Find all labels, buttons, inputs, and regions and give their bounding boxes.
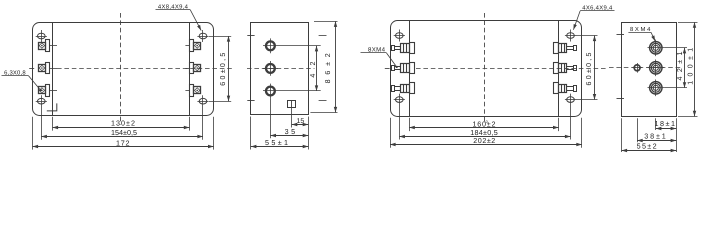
svg-text:38±1: 38±1: [644, 132, 666, 141]
view B slot tick right bottom: [319, 100, 327, 102]
dim A extension line flange-left: [32, 117, 34, 150]
filter A faston terminal left 1 (6,3x0,8): [39, 40, 58, 52]
filter A faston terminal left 2 (6,3x0,8): [39, 63, 58, 74]
svg-text:130±2: 130±2: [111, 119, 135, 128]
svg-text:172: 172: [116, 138, 130, 147]
dim B 86±2 extension top: [314, 21, 338, 23]
filter A faston terminal right 1: [185, 40, 200, 52]
view B terminal circle 1: [263, 38, 321, 53]
dim C 60±0.5 extension bottom: [576, 99, 598, 101]
filter C screw terminal right 3 (M4): [554, 83, 577, 94]
svg-text:18±1: 18±1: [654, 119, 675, 128]
filter A mounting slot hole 1 (8,4x9,4): [36, 30, 47, 42]
view D screw terminal circle 1: [648, 40, 688, 57]
view D screw terminal circle 3: [648, 80, 688, 97]
svg-text:55±2: 55±2: [637, 141, 657, 150]
filter A horizontal dashed centerline: [57, 68, 232, 70]
dim C 202±2 dimension line: [390, 144, 582, 146]
label C 8XM4 underline: [361, 52, 387, 54]
view B slot tick left top: [247, 35, 254, 37]
dim C 160±2 dimension line: [409, 127, 558, 129]
filter A faston terminal right 2: [185, 63, 200, 74]
filter A earth tab mark (L-shape near bottom left): [47, 103, 57, 111]
dim D 38±1 dimension line: [637, 140, 676, 142]
view B earth tab: [288, 101, 296, 108]
dim C extension line body-right: [558, 118, 560, 131]
dim D extension line stud: [637, 118, 639, 142]
label 6,3X0,8 leader dot: [40, 89, 42, 91]
svg-text:154±0,5: 154±0,5: [111, 128, 137, 137]
view D screw terminal circle 2: [648, 60, 665, 77]
svg-text:15: 15: [297, 118, 305, 125]
dim B 86±2 dimension line: [335, 21, 337, 112]
dim A extension line flange-right: [213, 117, 215, 150]
view D horizontal dashed centerline: [609, 67, 681, 69]
dim B 35 dimension line: [270, 135, 308, 137]
filter C screw terminal left 3 (M4): [392, 83, 415, 94]
dim B 86±2 extension bottom: [310, 112, 337, 114]
svg-text:202±2: 202±2: [473, 136, 495, 145]
view B terminal circle 2: [263, 61, 278, 76]
filter A vertical dashed centerline: [120, 13, 122, 125]
filter C flange outline (rounded mounting plate): [391, 21, 582, 117]
view B earth tab extension line: [291, 107, 293, 127]
label D 8XM4 leader line: [651, 32, 655, 41]
dim D extension line left edge: [621, 118, 623, 152]
filter A faston terminal right 3: [185, 85, 200, 97]
label 6,3X0,8 underline: [2, 75, 29, 77]
dim D 100±1 extension top: [678, 22, 698, 24]
dim C extension line flange-right: [581, 118, 583, 148]
dim A 154±0.5 dimension line: [41, 136, 203, 138]
view B outline rectangle: [251, 23, 309, 115]
dim D 100±1 extension bottom: [678, 116, 698, 118]
label 6,3X0,8 leader line: [29, 76, 40, 90]
dim C extension line body-left: [409, 118, 411, 131]
filter C mounting slot hole 2 (6,4x9,4): [565, 30, 576, 42]
filter A faston terminal left 3 (6,3x0,8): [39, 85, 58, 97]
label C 8XM4 leader line: [387, 53, 396, 66]
view D earth stud circle: [632, 63, 642, 73]
label 4X8,4X9,4 leader line: [190, 10, 201, 31]
dim A extension line body-left: [52, 117, 54, 131]
dim D 18±1 dimension line: [656, 128, 676, 130]
filter A mounting slot hole 3 (8,4x9,4): [36, 95, 47, 140]
dim C 60±0.5 dimension line: [594, 36, 596, 100]
view B slot tick right top: [319, 35, 327, 37]
dim A 60±0.5 extension line top: [209, 36, 231, 38]
filter C screw terminal left 2 (M4): [392, 63, 415, 74]
filter C screw terminal right 2 (M4): [554, 63, 577, 74]
label D 8XM4 underline: [628, 32, 651, 34]
label 4X8,4X9,4 underline: [156, 9, 191, 11]
filter C vertical dashed centerline: [484, 13, 486, 124]
filter A centerline dash left of flange: [29, 68, 34, 70]
filter C horizontal dashed centerline: [416, 68, 606, 70]
view D slot tick left bottom: [617, 98, 625, 100]
dim B 42 dimension line: [316, 46, 318, 91]
view B horizontal dashed centerline: [247, 68, 315, 70]
dim B extension line left edge: [250, 117, 252, 150]
label 4X6,4X9,4 leader line: [573, 11, 580, 30]
filter C mounting slot hole 1 (6,4x9,4): [394, 30, 405, 42]
filter A flange outline (rounded mounting plate): [33, 23, 214, 116]
filter C screw terminal right 1 (M4): [554, 43, 577, 54]
svg-text:8XM4: 8XM4: [630, 26, 651, 33]
dim C 60±0.5 extension top: [576, 35, 598, 37]
dim C 184±0.5 dimension line: [399, 136, 570, 138]
filter C screw terminal left 1 (M4): [392, 43, 415, 54]
dim C extension line flange-left: [390, 118, 392, 148]
view D slot tick left top: [617, 34, 625, 36]
filter C mounting slot hole 4 (6,4x9,4): [565, 94, 576, 140]
filter A mounting slot hole 4 (8,4x9,4): [197, 95, 208, 140]
view D outline rectangle: [622, 23, 677, 117]
label 4X6,4X9,4 underline: [580, 10, 614, 12]
dim D 55±2 dimension line: [622, 150, 677, 152]
view B slot tick left bottom: [247, 100, 254, 102]
dim D 100±1 dimension line: [694, 22, 696, 116]
dim A 130±2 dimension line: [53, 127, 190, 129]
dim A 60±0.5 extension line bottom: [209, 101, 231, 103]
filter A body left edge: [52, 22, 54, 115]
dim B extension line right edge: [308, 117, 310, 150]
dim A 60±0.5 dimension line: [228, 36, 230, 101]
dim B 15 dimension line: [292, 124, 309, 126]
filter C body left edge: [409, 21, 411, 117]
filter A mounting slot hole 2 (8,4x9,4): [197, 30, 208, 42]
view B terminal circle 3: [263, 84, 321, 139]
filter C body right edge: [558, 21, 560, 117]
filter A body right edge: [189, 22, 191, 115]
filter C centerline dash left of flange: [385, 68, 390, 70]
svg-text:0: 0: [486, 120, 488, 124]
dim D 42±1 dimension line: [684, 48, 686, 88]
dim D extension line right edge: [676, 118, 678, 152]
dim D extension line circles: [655, 118, 657, 130]
label C 8XM4 leader dot: [396, 66, 398, 68]
dim A extension line body-right: [189, 117, 191, 131]
dim A 172 dimension line: [33, 146, 214, 148]
dim B 55±1 dimension line: [251, 146, 308, 148]
filter C mounting slot hole 3 (6,4x9,4): [394, 94, 405, 140]
